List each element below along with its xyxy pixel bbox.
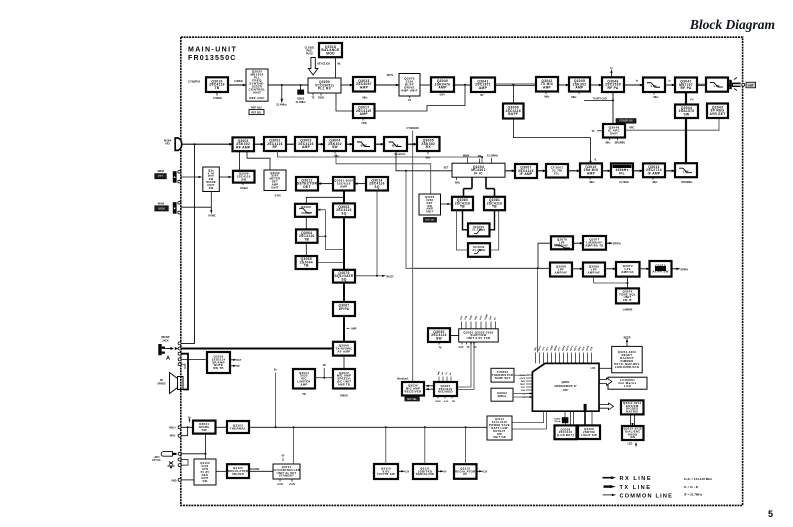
svg-text:THERMAL: THERMAL: [230, 426, 246, 430]
lpf det: [675, 163, 697, 177]
wire X to Y: [640, 268, 650, 270]
b+ line to LB: [275, 373, 277, 428]
label under B7: [427, 151, 429, 154]
tone squelch Q3074: [616, 288, 639, 303]
wire RXO to RXP: [633, 170, 643, 172]
if count buffer Q3205: [419, 194, 441, 215]
tx amp Q3023: [353, 77, 375, 92]
wire APC to HV reg: [625, 118, 719, 130]
svg-text:TB: TB: [304, 237, 309, 241]
wire B5-B6: [375, 143, 384, 145]
svg-text:RF AMP: RF AMP: [236, 145, 251, 149]
legend COMMON line: [603, 494, 613, 496]
svg-text:ML: ML: [338, 64, 342, 66]
svg-text:STANDBY: STANDBY: [279, 474, 294, 478]
wire AF top junction: [306, 197, 344, 204]
wire AN down to AQ: [205, 434, 207, 459]
svg-text:POWER SW: POWER SW: [619, 121, 633, 123]
svg-text:5V: 5V: [444, 471, 447, 473]
svg-text:6.3V: 6.3V: [405, 471, 410, 473]
svg-text:SW: SW: [241, 177, 246, 181]
ext power terminals: [178, 426, 181, 429]
svg-text:Fo: Fo: [691, 99, 695, 102]
reg Q3110: [374, 464, 398, 479]
svg-text:CPU: CPU: [563, 388, 569, 392]
wire TXF to TXG: [590, 84, 602, 86]
svg-text:UNIT: UNIT: [253, 90, 261, 94]
wire W,X to Z: [594, 277, 628, 284]
wire ext- up: [181, 427, 187, 435]
svg-text:MOD: MOD: [435, 401, 441, 403]
svg-text:LCD: LCD: [624, 384, 632, 388]
svg-text:AMP TB: AMP TB: [338, 382, 350, 386]
apc bottom pins: [609, 138, 611, 141]
svg-text:FIL: FIL: [619, 171, 625, 175]
svg-text:MHz SEL: MHz SEL: [425, 220, 435, 222]
svg-text:4800K: 4800K: [157, 170, 164, 173]
if amp Q3007: [515, 164, 537, 178]
label under AA: [438, 342, 440, 345]
svg-text:TX RF7 CUR.: TX RF7 CUR.: [593, 97, 608, 100]
svg-text:JACK: JACK: [162, 339, 169, 342]
svg-text:AMP: AMP: [479, 86, 488, 90]
wire AE to cpu: [514, 374, 529, 376]
wire rail to AS: [293, 427, 295, 464]
svg-text:RX: RX: [426, 145, 432, 149]
svg-text:EXT DC: EXT DC: [152, 460, 161, 462]
wire dc plug to AQ line: [181, 453, 205, 455]
svg-text:RX LINE: RX LINE: [620, 476, 653, 482]
tx amp Q3040: [431, 77, 454, 92]
wire P to Q: [573, 242, 583, 244]
svg-text:Q3001: Q3001: [561, 380, 570, 384]
svg-text:RES: RES: [521, 381, 526, 383]
wire V to W: [572, 268, 583, 270]
rx mixer Q3005: [417, 137, 440, 151]
switch unit Q3107: [273, 464, 300, 479]
ANT label box: [746, 82, 756, 88]
wire bigbox to H: [494, 189, 496, 197]
svg-text:SW: SW: [203, 479, 208, 483]
pa bias Q3044: [675, 105, 698, 119]
svg-text:CY38/G08: CY38/G08: [406, 126, 419, 130]
svg-text:MHz: MHz: [653, 181, 659, 184]
ptt input unit: [203, 167, 220, 192]
svg-text:AMP: AMP: [587, 171, 596, 175]
svg-text:SW: SW: [436, 336, 442, 340]
svg-text:AF/PA: AF/PA: [339, 307, 350, 311]
svg-text:UNIT 9.6V TXB: UNIT 9.6V TXB: [467, 336, 491, 340]
svg-text:X3001: X3001: [554, 418, 561, 420]
speaker symbol: [178, 377, 184, 390]
b+ tick near AP: [323, 368, 325, 378]
svg-text:SP: SP: [237, 366, 241, 368]
svg-text:75kHz: 75kHz: [554, 421, 561, 423]
fuse symbol: [168, 462, 175, 467]
wire VCO to Q3017: [336, 93, 353, 111]
svg-text:21.4MHz: 21.4MHz: [276, 102, 287, 106]
legend RX line: [603, 477, 612, 479]
wire Q3008 to RXN: [513, 119, 590, 164]
svg-text:RF: RF: [273, 145, 278, 149]
svg-text:TB: TB: [492, 205, 497, 209]
svg-text:VCC: VCC: [521, 387, 526, 389]
wire ptt to TB2: [181, 176, 200, 178]
label under B4: [334, 151, 336, 154]
wire main to Q3008: [512, 85, 514, 104]
svg-text:TX/R: TX/R: [361, 122, 367, 125]
svg-text:MIC/MOD: MIC/MOD: [438, 390, 453, 394]
wire bigbox to G: [463, 189, 465, 197]
regulator Q3105: [227, 464, 249, 478]
svg-text:+DC5: +DC5: [154, 457, 161, 459]
wire B7 tap grey: [336, 154, 431, 211]
cpu Q3001: [532, 363, 599, 411]
wire B1-B2: [254, 143, 264, 145]
cpu to AI arrow: [600, 403, 614, 410]
svg-text:BUSY: BUSY: [387, 274, 394, 278]
svg-text:4M: 4M: [478, 155, 481, 158]
pa module Q3047: [675, 78, 697, 93]
svg-text:MAIN: MAIN: [463, 154, 469, 157]
svg-text:6.3V: 6.3V: [459, 347, 464, 349]
svg-text:+5.0V: +5.0V: [289, 484, 296, 486]
if amp Q3013: [643, 163, 665, 177]
svg-text:LCD: LCD: [591, 368, 596, 370]
mic af amp Q3066: [333, 342, 355, 356]
af amp Q3067: [333, 302, 355, 316]
svg-text:PLUG: PLUG: [306, 53, 313, 56]
svg-text:IF AMP: IF AMP: [520, 172, 533, 176]
AD bottom labels: [437, 396, 439, 399]
wire LPF1 to PA: [665, 84, 675, 86]
if ic top pins: [467, 158, 469, 163]
label TX left of APC: [597, 130, 603, 132]
sq routing line: [325, 210, 344, 250]
lpf antenna switch: [706, 78, 728, 92]
svg-text:SERIAL/5W: SERIAL/5W: [416, 472, 434, 476]
svg-text:APC: APC: [629, 127, 634, 130]
wire W to X: [605, 268, 616, 270]
svg-text:LOW,D/MR,SCN: LOW,D/MR,SCN: [615, 365, 639, 369]
tx buffer Q3017: [353, 104, 375, 118]
arrow out of Q: [606, 242, 610, 244]
svg-text:IF AMP: IF AMP: [648, 171, 661, 175]
speaker switch Q3015: [207, 352, 230, 373]
vco Q3050: [308, 78, 341, 93]
svg-text:MOD: MOD: [326, 51, 335, 55]
svg-text:MHz: MHz: [606, 143, 612, 145]
antenna jack: [728, 83, 736, 85]
svg-text:5R/AVR: 5R/AVR: [232, 472, 244, 476]
beep arrow above AG: [626, 341, 628, 347]
svg-text:21.4MHz: 21.4MHz: [296, 101, 307, 104]
svg-text:OSC2: OSC2: [520, 378, 526, 380]
tx amp Q3045: [569, 77, 590, 91]
svg-text:LIGHT SW: LIGHT SW: [581, 433, 597, 437]
xtal X3001 75k: [562, 417, 569, 423]
wire T1 to T2: [228, 84, 246, 86]
svg-text:UNIT: UNIT: [610, 132, 618, 136]
svg-text:V3/4: V3/4: [440, 94, 446, 97]
svg-text:TX: TX: [438, 346, 441, 349]
label under Q3006: [242, 183, 244, 185]
svg-text:MHz: MHz: [654, 96, 660, 99]
oscillator Q3019: [206, 77, 228, 92]
AU out: [437, 470, 441, 472]
svg-text:UNIT: UNIT: [426, 210, 434, 214]
cpu to lcd bus arrow: [600, 378, 613, 385]
svg-text:SET: SET: [444, 167, 449, 170]
svg-text:S-RH: S-RH: [275, 194, 281, 197]
svg-text:CY38/P03: CY38/P03: [188, 80, 200, 84]
pll unit Q3020: [246, 69, 268, 101]
AD top pins: [438, 377, 440, 383]
svg-text:UNIT: UNIT: [271, 185, 279, 189]
wire TXA to TXB: [375, 84, 399, 86]
svg-text:SQ: SQ: [341, 211, 346, 215]
mic receiver Q3026: [402, 382, 424, 396]
svg-text:4.5MHz: 4.5MHz: [213, 96, 223, 100]
thick AF line T down: [343, 316, 345, 342]
svg-text:BRG/MHz: BRG/MHz: [682, 181, 694, 184]
avr unit Q3103: [194, 459, 216, 485]
svg-text:REF ADJ: REF ADJ: [251, 106, 262, 109]
svg-text:MONI: MONI: [158, 207, 165, 210]
svg-text:RX/B: RX/B: [318, 97, 324, 100]
label 4.5MHz under Q3019: [216, 92, 218, 96]
svg-text:AMP: AMP: [300, 382, 307, 386]
wire AI to AJ: [630, 414, 632, 426]
modulator Q3018: [319, 43, 342, 57]
cpu pins to AK AL: [565, 423, 567, 425]
wire TB3 to G: [441, 203, 452, 205]
wire jack to AM: [181, 358, 207, 360]
label box under TB3: [424, 218, 437, 223]
svg-text:BEEP: BEEP: [624, 336, 631, 339]
svg-text:[LCD BKT]: [LCD BKT]: [557, 433, 574, 437]
wire RXM to CF1: [537, 170, 546, 172]
svg-text:AMP: AMP: [575, 86, 584, 90]
fo arrow above TXG: [611, 72, 613, 78]
if ic bottom pin: [456, 177, 458, 180]
svg-text:Block Diagram: Block Diagram: [689, 17, 775, 32]
bpf filter1: [353, 137, 375, 151]
buffer Q3008: [503, 104, 524, 119]
svg-text:46006: 46006: [157, 202, 164, 205]
ptt gate Q3006: [233, 171, 255, 183]
junction down-arrow 21.4MHz: [281, 85, 283, 100]
svg-text:MIC SEL: MIC SEL: [407, 398, 417, 401]
svg-text:FR013550C: FR013550C: [188, 55, 237, 62]
wire TXE to TXF: [558, 84, 569, 86]
wire sq line down: [406, 171, 414, 268]
wire ext+ to AN: [181, 426, 193, 428]
AM out arrows: [230, 359, 234, 361]
lcd display: [608, 377, 647, 389]
tx buffer Q3070: [399, 74, 420, 97]
vco pins TX RX: [312, 93, 314, 96]
wire VCO to TX amp: [341, 84, 353, 86]
svg-text:21.25MHz: 21.25MHz: [487, 154, 499, 157]
wire sql to cpu: [537, 268, 539, 352]
svg-text:B+: B+: [274, 369, 278, 372]
svg-text:SP/PH: SP/PH: [613, 243, 621, 246]
wire U to AP: [343, 356, 345, 369]
squelch Q3075: [333, 270, 355, 283]
svg-text:4MHz: 4MHz: [497, 394, 506, 398]
svg-text:AMP: AMP: [543, 85, 551, 89]
wire TB2 to Q3006: [219, 176, 229, 178]
wire B2-B3: [286, 143, 295, 145]
rx mixer Q3010: [580, 163, 602, 177]
thermal unit: [227, 421, 249, 433]
power control unit: [487, 416, 512, 440]
svg-text:+5.0V: +5.0V: [277, 484, 284, 486]
legend TX line: [604, 485, 611, 487]
tx sw Q3030: [428, 328, 450, 342]
svg-text:AMP/PA TB: AMP/PA TB: [585, 244, 603, 248]
svg-text:21.7MHz: 21.7MHz: [619, 181, 629, 184]
svg-text:fL = fo - IF: fL = fo - IF: [684, 485, 699, 489]
idc limiter Q3024: [293, 369, 315, 389]
wire rail to AV: [465, 427, 467, 464]
thick AF line D to S: [343, 217, 345, 270]
svg-text:AMP: AMP: [340, 184, 347, 188]
label under LPF1: [653, 92, 655, 95]
cpu top pins: [535, 353, 537, 364]
wire R to AF line: [317, 261, 344, 263]
wire B3-B4: [317, 143, 324, 145]
wire rail to AT: [385, 427, 387, 464]
svg-text:SP3001: SP3001: [157, 382, 166, 385]
svg-text:MATRIX: MATRIX: [626, 410, 638, 414]
svg-text:8V: 8V: [463, 472, 467, 476]
rx line from connector: [181, 143, 233, 145]
svg-text:FIL: FIL: [554, 172, 559, 176]
svg-text:SW: SW: [684, 112, 690, 116]
lpf Q3072: [616, 262, 640, 277]
svg-text:P.MOD: P.MOD: [340, 395, 348, 398]
ceramic filter CF3001: [546, 164, 568, 178]
audio amp Q3077: [583, 236, 606, 250]
cpu left pins: [526, 374, 532, 376]
wires AD to AC arrows: [426, 385, 434, 387]
mic amp Q3022: [333, 369, 355, 389]
svg-text:HYMIC: HYMIC: [208, 216, 216, 218]
svg-text:AMP UNIT: AMP UNIT: [401, 89, 418, 93]
noise amp Q3061: [333, 177, 355, 191]
wire RXN to RXO: [602, 170, 611, 172]
bpf filter2: [384, 137, 407, 151]
svg-text:SW: SW: [202, 428, 207, 432]
rf amp Q3002: [264, 137, 286, 151]
svg-text:RF PA: RF PA: [680, 86, 691, 90]
wire Q3018 to VCO: [335, 57, 337, 78]
wire DETB to DETA: [318, 183, 333, 185]
wire PA to LPF2: [697, 83, 706, 85]
label under TXB: [409, 96, 411, 98]
svg-text:MAIN-UNIT: MAIN-UNIT: [188, 47, 237, 54]
wire G to I: [463, 210, 469, 230]
thick mic line to U: [181, 348, 333, 350]
xtal filter F3001: [468, 223, 490, 236]
svg-text:TX: TX: [311, 97, 314, 100]
label under TXF: [578, 92, 580, 95]
lpf audio Q3076: [551, 236, 573, 249]
svg-text:AVR SET: AVR SET: [709, 112, 725, 116]
svg-text:AMP/AF: AMP/AF: [588, 270, 601, 274]
wire B2 tap line: [278, 151, 483, 163]
svg-text:VR1: VR1: [165, 143, 170, 146]
cpu unit row wires: [512, 411, 544, 422]
wire TXG to LPF1: [624, 84, 643, 86]
jack body speaker-mic: [158, 344, 161, 355]
hollow arrow into VCO: [308, 58, 318, 76]
wire T2 to VCO: [268, 84, 308, 86]
reg Q3111: [413, 464, 437, 479]
svg-text:TB: TB: [304, 264, 309, 268]
wire H to I: [490, 210, 495, 230]
svg-text:TX: TX: [591, 130, 594, 133]
svg-text:RF PA: RF PA: [607, 86, 618, 90]
af amp Q3063: [333, 203, 355, 217]
wire B1 to Q3006: [239, 151, 241, 171]
speaker out arrow: [672, 268, 678, 270]
svg-text:48V1+: 48V1+: [169, 426, 177, 429]
wire TXB to TXC: [420, 84, 431, 86]
svg-text:TB: TB: [215, 86, 220, 90]
wire moni right: [181, 206, 212, 208]
antenna connector left: [175, 138, 181, 150]
svg-text:AMP: AMP: [351, 328, 357, 331]
svg-text:MHz: MHz: [572, 96, 578, 99]
svg-text:LAMP/B: LAMP/B: [623, 309, 633, 312]
sq amp Q3014: [366, 177, 388, 191]
wires AF to cpu: [513, 393, 531, 395]
wire E to F: [305, 217, 307, 230]
wire DETC down busy line: [376, 191, 378, 276]
svg-text:AMP: AMP: [438, 86, 447, 90]
svg-text:PTT: PTT: [158, 175, 163, 178]
wire TXC to TXD: [454, 84, 471, 86]
svg-text:RF: RF: [480, 94, 484, 97]
svg-text:TX: TX: [467, 347, 470, 349]
wire G outer to J: [457, 210, 469, 250]
backlight Q3209: [578, 425, 600, 439]
thermistor TH3002: [491, 368, 514, 382]
wire B4-B5: [346, 143, 353, 145]
label 6V above AS: [282, 458, 284, 461]
svg-text:VSS: VSS: [521, 390, 526, 392]
xtal filter F3002: [468, 243, 490, 257]
svg-text:6.3V: 6.3V: [483, 471, 488, 473]
mixer Q3081: [484, 197, 505, 210]
tx amp Q3041: [471, 78, 495, 93]
wire H outer to J: [490, 210, 499, 250]
svg-text:UNIT 5W: UNIT 5W: [493, 435, 506, 439]
reset backup unit: [612, 346, 643, 372]
wire AR to AS: [249, 470, 273, 472]
svg-text:FM IF: FM IF: [623, 298, 632, 302]
wire AA to AB: [450, 335, 459, 337]
moni jack body: [173, 202, 177, 214]
jack terminals col1: [178, 342, 181, 345]
mixer Q3080: [452, 197, 473, 210]
svg-text:100kHz: 100kHz: [240, 188, 249, 190]
wire LB to AP: [315, 377, 333, 379]
wire B6 tap to IF in: [396, 151, 452, 171]
